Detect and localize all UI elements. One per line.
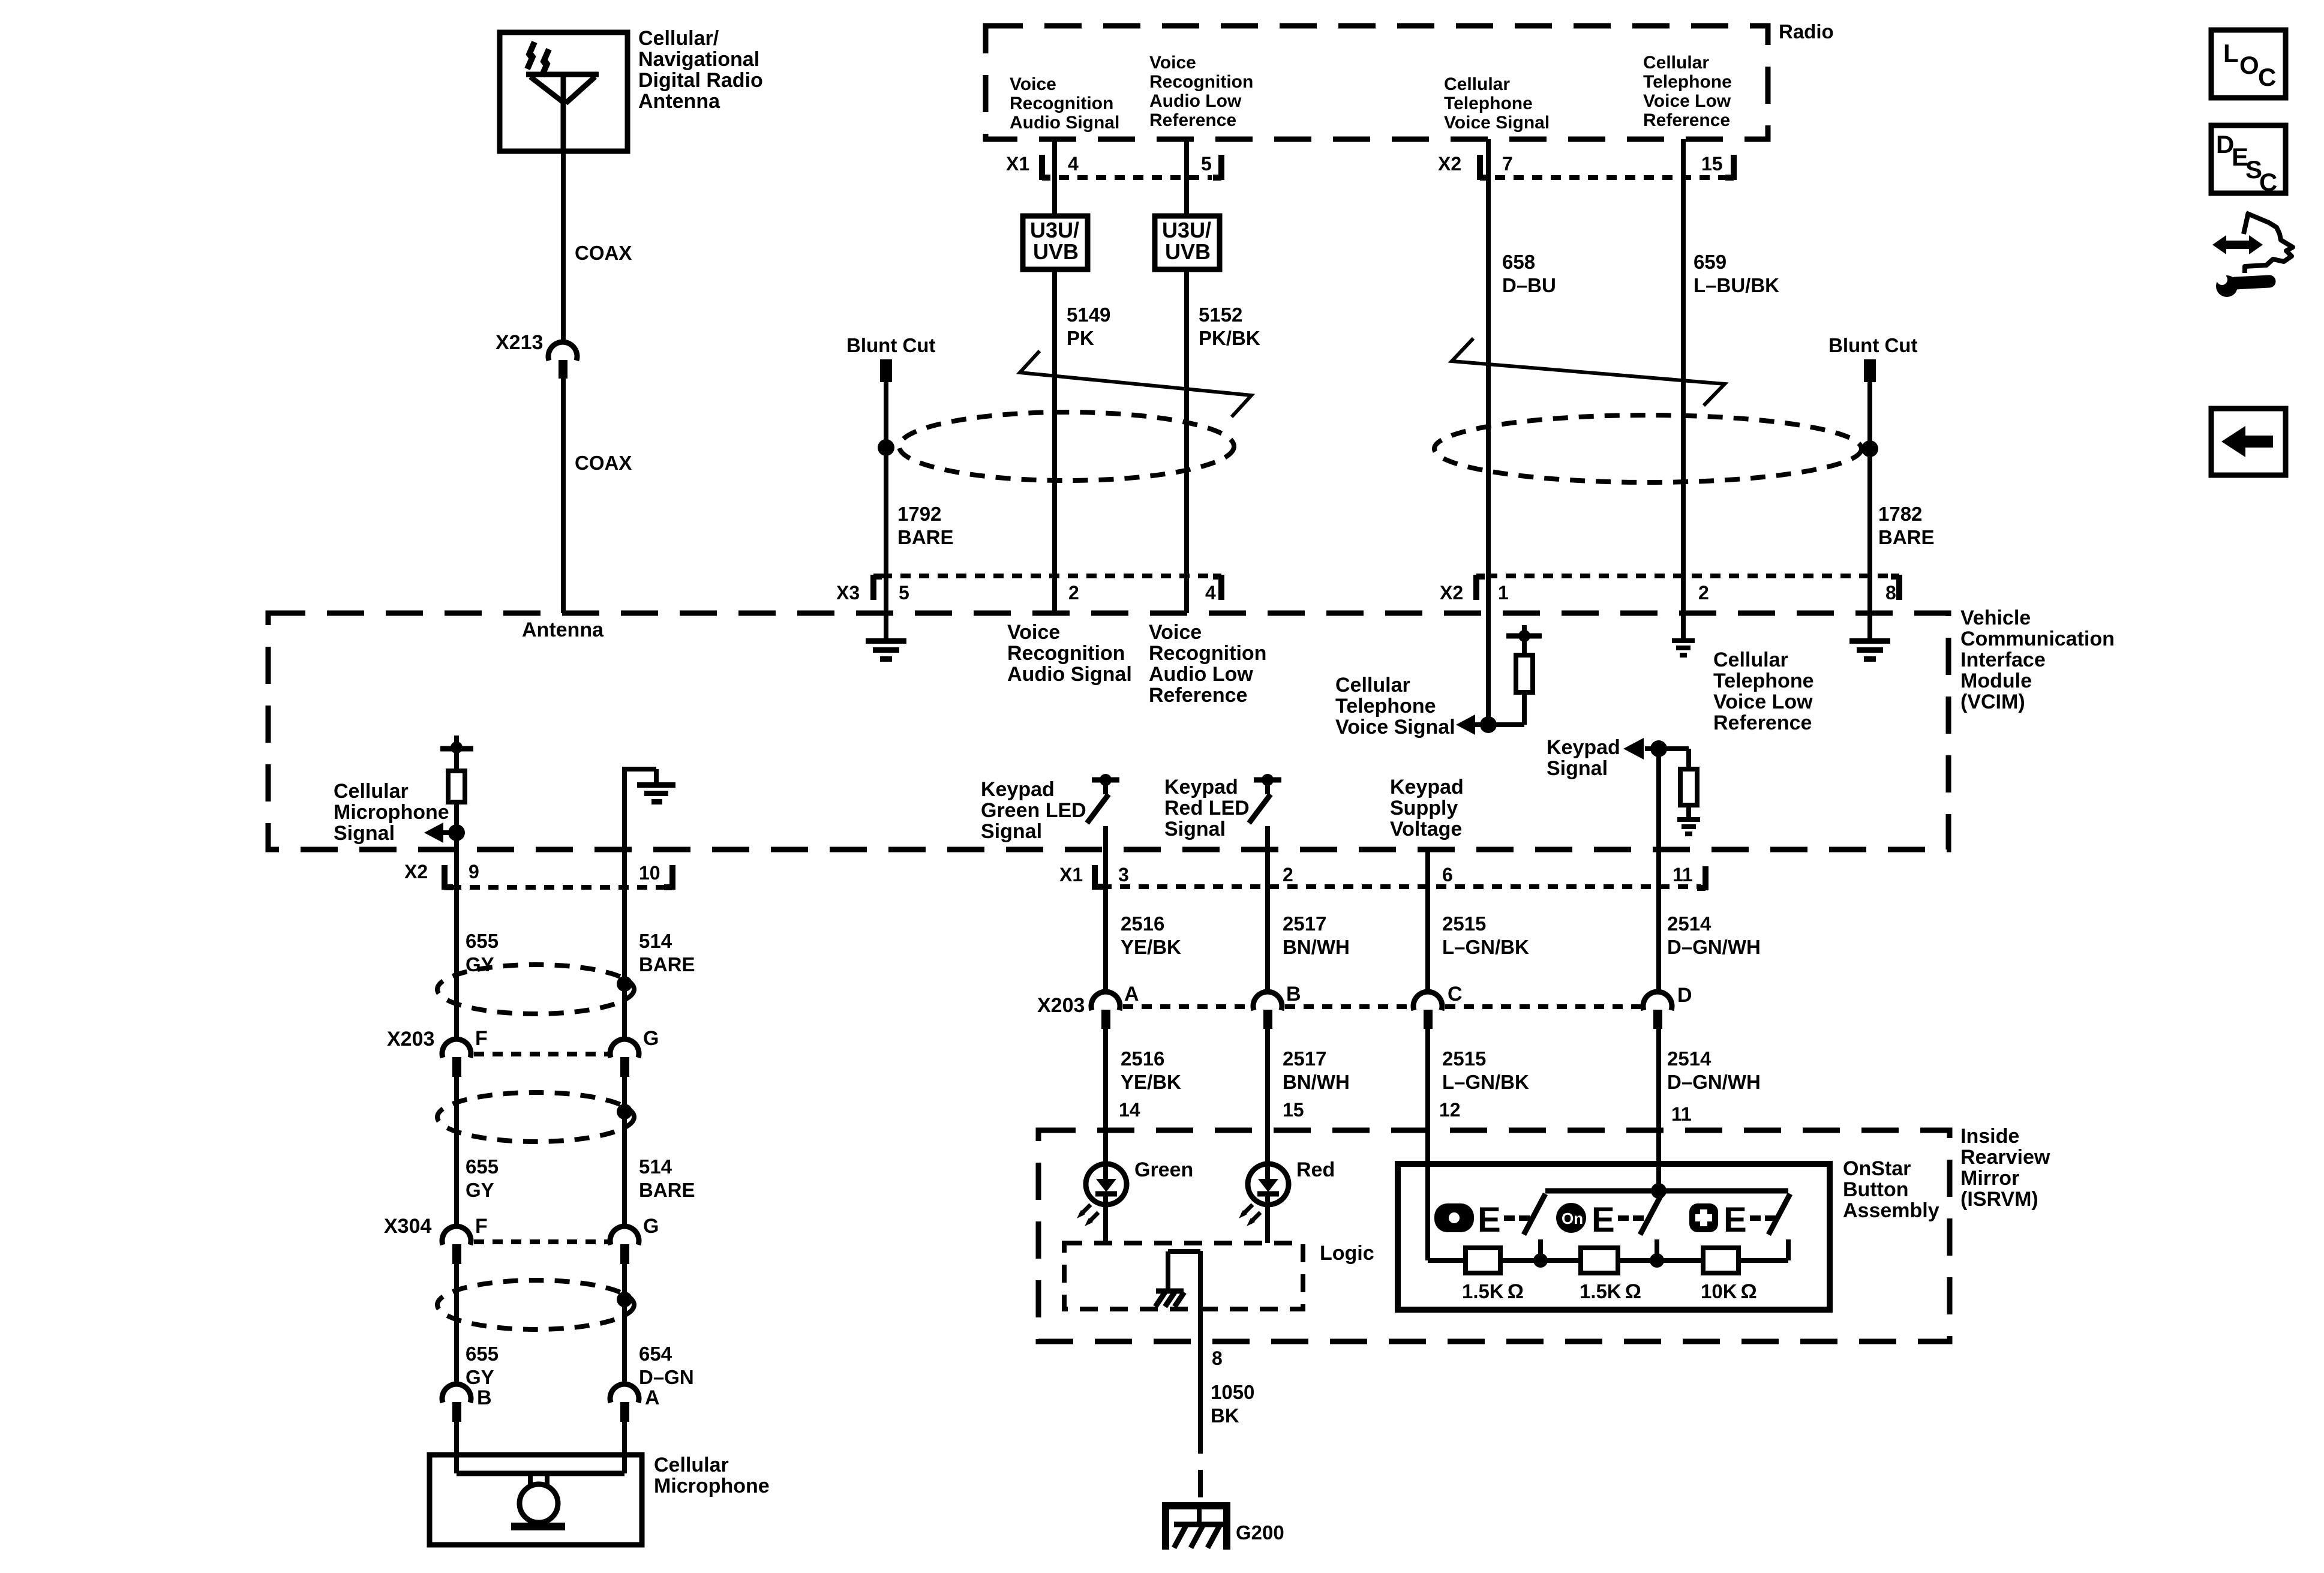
svg-text:Blunt Cut: Blunt Cut [846, 334, 935, 356]
microphone symbol [457, 1473, 624, 1530]
svg-text:2: 2 [1068, 582, 1079, 604]
radio connector X2 row [1438, 153, 1734, 180]
icon LOC box [2211, 30, 2286, 98]
wire blunt cut 1792 [884, 382, 888, 638]
VCIM connector X2 row left [404, 861, 672, 890]
svg-text:X203: X203 [387, 1028, 434, 1050]
svg-text:E: E [1592, 1200, 1615, 1239]
icon back arrow box [2211, 409, 2286, 475]
splice code box U3U/UVB right [1155, 216, 1220, 269]
svg-text:1.5KΩ: 1.5KΩ [1580, 1280, 1641, 1303]
shield ellipse left [899, 412, 1234, 481]
LED green [1077, 1164, 1127, 1226]
svg-text:1: 1 [1498, 582, 1509, 604]
internal arrow microphone signal [439, 830, 457, 835]
svg-text:C: C [1448, 983, 1463, 1005]
Logic box [1064, 1243, 1303, 1309]
microphone ground branch in VCIM [622, 769, 656, 852]
keypad signal pull resistor branch [1659, 746, 1689, 751]
svg-text:11: 11 [1671, 1103, 1692, 1125]
svg-text:B: B [1286, 983, 1301, 1005]
wires X1 to X203 [1103, 826, 1108, 993]
svg-text:Blunt Cut: Blunt Cut [1828, 334, 1917, 356]
svg-text:C: C [2258, 63, 2276, 91]
wire COAX lower [561, 377, 566, 613]
svg-text:10: 10 [639, 862, 660, 884]
svg-text:L: L [2223, 39, 2239, 67]
ground microphone in VCIM [637, 782, 675, 804]
svg-text:X213: X213 [496, 331, 543, 354]
svg-text:X3: X3 [836, 582, 860, 604]
svg-text:D: D [1677, 984, 1692, 1007]
microphone connector pins B and A [442, 1384, 660, 1422]
svg-text:Green: Green [1134, 1158, 1193, 1181]
svg-text:UVB: UVB [1033, 239, 1079, 264]
svg-text:12: 12 [1439, 1099, 1461, 1121]
svg-text:15: 15 [1701, 153, 1723, 175]
svg-text:E: E [1478, 1200, 1501, 1239]
shield ellipse pair 3 [437, 1280, 634, 1329]
svg-text:On: On [1562, 1209, 1583, 1227]
ground shield right in VCIM [1849, 638, 1890, 662]
antenna RF waves glyph [527, 42, 549, 76]
Cellular Microphone box [430, 1455, 642, 1545]
svg-text:2: 2 [1283, 864, 1293, 885]
switch 2 [1640, 1194, 1662, 1235]
svg-text:X2: X2 [1440, 582, 1463, 604]
svg-text:E: E [1724, 1200, 1747, 1239]
node bar for microphone signal resistor [440, 736, 473, 754]
button 2 OnStar icon [1556, 1203, 1586, 1233]
svg-text:14: 14 [1119, 1099, 1140, 1121]
svg-text:10KΩ: 10KΩ [1701, 1280, 1757, 1303]
junction dot shield right [1861, 440, 1878, 457]
resistor internal (658 termination) [1522, 636, 1527, 655]
svg-text:G: G [643, 1027, 659, 1050]
svg-text:X2: X2 [1438, 153, 1461, 175]
svg-text:7: 7 [1502, 153, 1513, 175]
wires between X203 and X304 [454, 1077, 459, 1227]
wire voice recognition audio low reference [1184, 139, 1189, 613]
svg-text:3: 3 [1118, 864, 1129, 885]
svg-text:U3U/: U3U/ [1030, 218, 1079, 242]
svg-text:5: 5 [899, 582, 909, 604]
wire blunt cut 1782 [1867, 382, 1872, 638]
VCIM connector X1 row bottom [1059, 864, 1706, 890]
resistor microphone signal [454, 749, 459, 771]
svg-text:F: F [475, 1027, 488, 1050]
svg-text:G200: G200 [1236, 1521, 1284, 1544]
keypad green LED driver switch [1087, 774, 1119, 823]
svg-text:COAX: COAX [575, 452, 632, 474]
shield ellipse pair 2 [437, 1092, 634, 1142]
icon DESC box [2211, 125, 2286, 196]
wire voice recognition audio signal [1052, 139, 1057, 613]
LED red [1239, 1164, 1289, 1226]
keypad red LED driver switch [1249, 774, 1281, 823]
svg-text:U3U/: U3U/ [1162, 218, 1211, 242]
wire COAX upper [561, 151, 566, 343]
antenna module box (Cellular/Navigational Digital Radio Antenna) [500, 32, 627, 151]
svg-text:Logic: Logic [1320, 1242, 1374, 1265]
svg-text:11: 11 [1673, 864, 1693, 885]
svg-text:6: 6 [1442, 864, 1453, 885]
shield ellipse right [1434, 415, 1861, 482]
icon dog head with arrow and wrench [2212, 212, 2293, 297]
wire cellular telephone voice signal 658 [1486, 139, 1491, 725]
cable cut slash right [1452, 338, 1725, 406]
OnStar Button Assembly box [1398, 1164, 1830, 1310]
ISRVM box [1038, 1130, 1950, 1341]
button 3 cross icon [1689, 1203, 1718, 1232]
junction dot shield left [878, 439, 894, 456]
wire 655 GY microphone signal [454, 852, 459, 1040]
connector X203 left row [387, 1027, 659, 1077]
wires between X304 and microphone connector [454, 1264, 459, 1385]
switch 3 [1768, 1194, 1790, 1235]
resistor chain [1428, 1258, 1466, 1263]
svg-text:X203: X203 [1037, 994, 1085, 1017]
switch 1 [1524, 1194, 1545, 1235]
junction dot microphone signal [448, 824, 465, 841]
svg-text:15: 15 [1283, 1099, 1304, 1121]
button 1 phone icon [1434, 1203, 1474, 1232]
svg-text:Antenna: Antenna [522, 619, 604, 641]
VCIM connector X2 row upper right [1440, 575, 1899, 604]
svg-text:UVB: UVB [1165, 239, 1211, 264]
antenna symbol [526, 74, 599, 151]
VCIM connector X3 row [836, 575, 1221, 604]
splice code box U3U/UVB left [1023, 216, 1088, 269]
svg-text:Radio: Radio [1779, 20, 1834, 43]
svg-text:C: C [2259, 168, 2277, 196]
shield ellipse pair 1 [437, 965, 634, 1014]
logic internal ground [1155, 1251, 1200, 1307]
svg-text:KeypadSupplyVoltage: KeypadSupplyVoltage [1390, 776, 1464, 840]
wire 1050 BK from logic [1198, 1251, 1203, 1454]
connector X203 middle row [1037, 983, 1692, 1029]
cable cut slash left [1020, 351, 1251, 417]
ground keypad signal resistor [1677, 817, 1700, 836]
keypad signal bus junction dot [1651, 1183, 1667, 1199]
wires X203 to ISRVM [1103, 1029, 1108, 1243]
svg-text:X1: X1 [1059, 864, 1083, 885]
svg-text:G: G [643, 1215, 659, 1238]
svg-text:O: O [2239, 51, 2259, 79]
svg-text:2: 2 [1698, 582, 1709, 604]
svg-text:9: 9 [469, 861, 479, 882]
Radio box [986, 26, 1768, 139]
ground shield left in VCIM [866, 638, 906, 662]
connector X304 row [384, 1215, 659, 1264]
internal node bar for 658 resistor [1506, 625, 1542, 642]
svg-text:F: F [475, 1215, 488, 1238]
internal arrow cellular telephone voice signal [1471, 722, 1488, 727]
svg-text:B: B [477, 1386, 492, 1409]
wire cellular telephone voice low reference 659 [1681, 139, 1686, 638]
button bus [1545, 1188, 1788, 1194]
svg-text:4: 4 [1068, 153, 1079, 175]
svg-text:8: 8 [1212, 1347, 1223, 1369]
svg-text:COAX: COAX [575, 242, 632, 264]
wire 514 BARE microphone shield [622, 852, 627, 1040]
ground G200 [1162, 1502, 1230, 1550]
svg-text:4: 4 [1205, 582, 1216, 604]
radio connector X1 row [1006, 153, 1221, 180]
svg-text:Red: Red [1296, 1158, 1335, 1181]
svg-text:1.5KΩ: 1.5KΩ [1462, 1280, 1524, 1303]
svg-text:A: A [1124, 983, 1139, 1005]
svg-text:A: A [645, 1386, 660, 1409]
svg-text:X2: X2 [404, 861, 428, 882]
wires into microphone box [454, 1422, 459, 1473]
VCIM module box [268, 613, 1948, 849]
svg-text:X304: X304 [384, 1215, 431, 1238]
svg-text:5: 5 [1201, 153, 1212, 175]
junction dot 658 [1480, 716, 1497, 733]
svg-text:8: 8 [1885, 582, 1896, 604]
svg-text:X1: X1 [1006, 153, 1029, 175]
ground 659 in VCIM [1672, 638, 1695, 658]
